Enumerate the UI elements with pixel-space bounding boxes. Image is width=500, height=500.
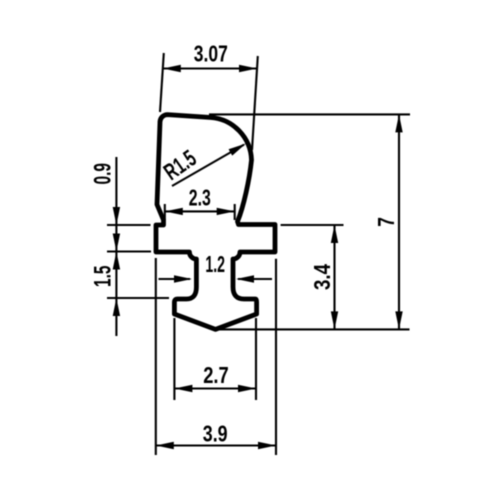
svg-text:3.4: 3.4 [309,264,335,290]
svg-text:3.9: 3.9 [203,421,228,447]
svg-text:2.7: 2.7 [203,362,229,388]
svg-text:1.2: 1.2 [205,251,225,277]
svg-text:7: 7 [373,217,399,227]
svg-text:3.07: 3.07 [194,41,228,67]
svg-text:1.5: 1.5 [90,266,117,288]
svg-text:0.9: 0.9 [90,163,117,185]
svg-text:2.3: 2.3 [189,185,211,211]
